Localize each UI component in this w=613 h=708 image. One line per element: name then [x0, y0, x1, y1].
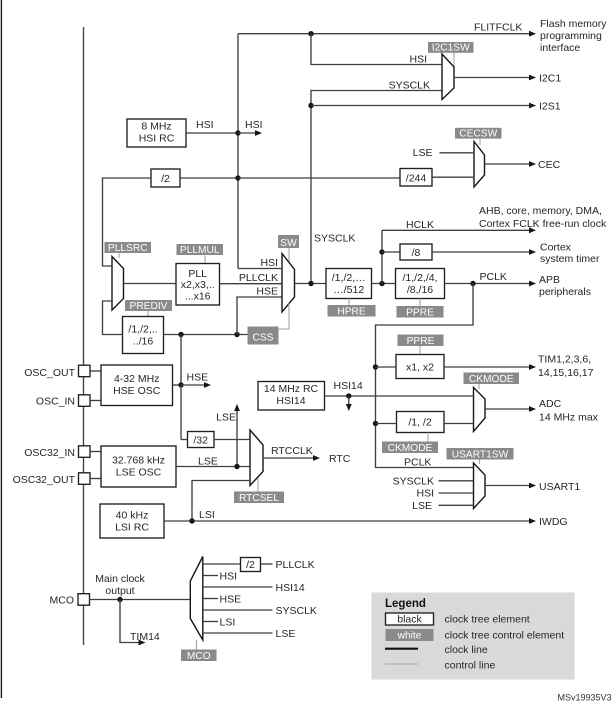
svg-text:white: white — [397, 630, 422, 641]
svg-text:CECSW: CECSW — [459, 128, 497, 139]
box PLL x2,x3 ... x16 — [176, 264, 220, 306]
svg-text:/1,/2,…: /1,/2,… — [332, 272, 366, 284]
svg-text:PPRE: PPRE — [407, 336, 435, 347]
svg-text:RTC: RTC — [329, 453, 351, 465]
node SW-HSE junction — [234, 332, 239, 337]
svg-text:PCLK: PCLK — [480, 271, 507, 283]
control stub PREDIV to box — [147, 311, 149, 316]
svg-text:Legend: Legend — [385, 598, 426, 610]
svg-text:LSI: LSI — [199, 509, 215, 521]
wire MCO HSI14 input — [203, 586, 273, 588]
svg-text:MSv19935V3: MSv19935V3 — [557, 693, 611, 703]
node PREDIV-HSE junction — [178, 332, 183, 337]
wire SYSCLK trunk vertical x=311 — [311, 91, 442, 284]
control stub CECSW to mux — [479, 139, 481, 145]
svg-text:HSE: HSE — [187, 372, 209, 384]
control wire CSS to SW mux — [279, 304, 290, 330]
multiplier box x1, x2 — [396, 355, 444, 379]
wire SW mux output SYSCLK — [295, 283, 327, 285]
legend white element sample — [386, 629, 434, 641]
svg-text:CKMODE: CKMODE — [388, 443, 433, 454]
control stub I2C1SW to mux — [453, 53, 455, 66]
svg-text:HSE: HSE — [220, 594, 242, 606]
svg-text:Flash memory: Flash memory — [540, 18, 607, 30]
svg-text:LSE: LSE — [413, 147, 433, 159]
svg-text:14 MHz max: 14 MHz max — [539, 412, 599, 424]
svg-text:PLLCLK: PLLCLK — [239, 272, 278, 284]
svg-text:OSC32_IN: OSC32_IN — [24, 447, 75, 459]
wire /8 to Cortex system timer — [432, 251, 532, 253]
wire HSI to /2 divider — [180, 177, 238, 179]
node SYSCLK junction — [308, 281, 313, 286]
svg-text:HPRE: HPRE — [337, 306, 366, 317]
legend black element sample — [386, 613, 434, 625]
svg-text:14 MHz RC: 14 MHz RC — [264, 383, 319, 395]
control stub SW to mux — [288, 248, 290, 263]
wire HCLK to /8 — [382, 251, 400, 253]
node HSI RC junction — [235, 130, 240, 135]
svg-text:PLLMUL: PLLMUL — [180, 245, 220, 256]
node HSE junction — [178, 382, 183, 387]
svg-text:AHB, core, memory, DMA,: AHB, core, memory, DMA, — [479, 205, 602, 217]
pin MCO — [78, 594, 90, 606]
svg-text:HSI: HSI — [245, 119, 263, 131]
wire LSE stub usart — [439, 504, 474, 506]
svg-text:Cortex: Cortex — [540, 242, 572, 254]
page left border — [0, 0, 2, 698]
wire PCLK to /1,/2 — [376, 423, 397, 425]
wire PCLK descent to peripherals — [376, 284, 475, 468]
control stub HPRE — [348, 299, 350, 306]
wire HSI trunk into SW mux — [238, 268, 282, 270]
oscillator box 32.768 kHz LSE OSC — [101, 446, 176, 487]
svg-text:Cortex FCLK free-run clock: Cortex FCLK free-run clock — [479, 218, 607, 230]
wire HSE direction arrow — [181, 384, 207, 386]
svg-text:HSI: HSI — [220, 571, 238, 583]
divider box /2 — [151, 169, 180, 187]
control stub RTCSEL — [257, 478, 259, 492]
wire USART1 output — [485, 485, 532, 487]
oscillator box 14 MHz RC HSI14 — [258, 382, 325, 411]
wire MCO LSI input stub — [203, 621, 218, 623]
control label PLLSRC — [105, 242, 152, 253]
svg-text:I2S1: I2S1 — [539, 101, 561, 113]
svg-text:/1, /2: /1, /2 — [408, 417, 432, 429]
svg-text:black: black — [397, 613, 422, 625]
svg-text:../16: ../16 — [133, 335, 154, 347]
wire /1,/2 to ADC mux — [444, 423, 474, 425]
svg-text:/244: /244 — [406, 172, 427, 184]
svg-text:32.768 kHz: 32.768 kHz — [112, 454, 165, 466]
svg-text:CKMODE: CKMODE — [469, 374, 514, 385]
svg-text:TIM14: TIM14 — [130, 631, 160, 643]
svg-text:/8: /8 — [412, 247, 421, 259]
mux PLLSRC — [112, 257, 124, 311]
wire HCLK to AHB arrow — [382, 229, 532, 231]
node HSI/FLITFCLK junction — [308, 31, 313, 36]
wire HSI14 direction arrow down — [348, 396, 350, 405]
svg-text:USART1: USART1 — [539, 481, 580, 493]
control label PLLMUL — [177, 244, 224, 255]
wire PREDIV output loop to PLLSRC mux — [103, 301, 123, 335]
svg-text:programming: programming — [540, 30, 602, 42]
svg-text:PREDIV: PREDIV — [130, 301, 168, 312]
svg-text:/2: /2 — [161, 173, 170, 185]
wire OSC32_OUT stub — [90, 478, 101, 480]
control stub PPRE timers — [419, 346, 421, 355]
wire OSC_IN to HSE OSC — [90, 400, 101, 402]
svg-text:SYSCLK: SYSCLK — [393, 475, 434, 487]
wire MCO LSE input — [203, 632, 273, 634]
control label I2C1SW — [428, 42, 474, 53]
divider box /244 — [400, 169, 432, 187]
wire PLLSRC output to PLL — [124, 283, 177, 285]
pin OSC32_IN — [79, 446, 91, 458]
divider box /1, /2 adc — [397, 412, 445, 433]
svg-text:HSI: HSI — [196, 119, 214, 131]
wire MCO HSI input stub — [203, 575, 218, 577]
wire HSI RC output — [186, 132, 238, 134]
svg-text:clock tree control element: clock tree control element — [445, 629, 565, 641]
svg-text:CSS: CSS — [253, 333, 274, 344]
node adc div junction — [373, 421, 378, 426]
svg-text:HSI14: HSI14 — [276, 582, 305, 594]
svg-text:Main clock: Main clock — [95, 573, 145, 585]
wire /2 output to PLLSRC mux — [103, 178, 152, 266]
svg-text:control line: control line — [445, 660, 496, 672]
node HSI //2 //244 junction — [235, 175, 240, 180]
svg-text:CEC: CEC — [538, 159, 561, 171]
svg-text:/1,/2,/4,: /1,/2,/4, — [402, 272, 437, 284]
control label CKMODE adc — [464, 373, 520, 385]
node x1x2 junction — [373, 364, 378, 369]
mux RTCSEL — [250, 430, 263, 486]
svg-text:OSC32_OUT: OSC32_OUT — [13, 474, 76, 486]
legend control line sample — [385, 663, 418, 665]
wire MCO output — [90, 599, 191, 601]
control stub USART1SW — [479, 460, 481, 465]
svg-text:4-32 MHz: 4-32 MHz — [114, 373, 160, 385]
svg-text:/8,/16: /8,/16 — [407, 284, 433, 296]
control label PPRE — [397, 306, 444, 318]
wire LSE to CEC mux — [440, 152, 475, 154]
wire HSI to /244 divider — [238, 177, 400, 179]
control stub CKMODE lower — [427, 433, 429, 442]
svg-text:/2: /2 — [246, 559, 255, 571]
wire SYSCLK stub usart — [439, 480, 474, 482]
svg-text:LSE: LSE — [198, 456, 218, 468]
svg-text:40 kHz: 40 kHz — [116, 509, 149, 521]
svg-text:SYSCLK: SYSCLK — [389, 79, 430, 91]
svg-text:clock tree element: clock tree element — [445, 613, 530, 625]
svg-text:LSI: LSI — [220, 617, 236, 629]
wire HSI trunk vertical x=238 — [237, 34, 239, 269]
divider box PREDIV /1,/2.. ../16 — [123, 317, 164, 354]
divider box /32 — [188, 432, 215, 448]
svg-text:PLLCLK: PLLCLK — [276, 559, 315, 571]
svg-text:SW: SW — [280, 238, 297, 249]
wire HSI14 to ADC mux — [325, 395, 474, 397]
svg-text:MCO: MCO — [187, 651, 211, 662]
svg-text:RTCSEL: RTCSEL — [239, 493, 279, 504]
svg-text:IWDG: IWDG — [539, 516, 568, 528]
mux SW system clock switch — [282, 254, 295, 313]
control stub MCO label — [196, 640, 198, 650]
svg-text:x1, x2: x1, x2 — [406, 362, 434, 374]
oscillator box 4-32 MHz HSE OSC — [101, 365, 173, 406]
wire CEC output — [485, 163, 533, 165]
svg-text:MCO: MCO — [50, 594, 75, 606]
oscillator box 8 MHz HSI RC — [127, 119, 186, 147]
svg-text:/32: /32 — [193, 435, 208, 447]
wire PCLK to x1,x2 — [376, 366, 397, 368]
svg-text:…/512: …/512 — [333, 284, 364, 296]
legend panel — [372, 593, 575, 680]
svg-text:8 MHz: 8 MHz — [141, 121, 171, 133]
svg-text:HCLK: HCLK — [406, 219, 434, 231]
wire MCO SYSCLK input — [203, 609, 273, 611]
svg-text:SYSCLK: SYSCLK — [276, 605, 317, 617]
svg-text:I2C1: I2C1 — [539, 73, 561, 85]
svg-text:TIM1,2,3,6,: TIM1,2,3,6, — [538, 354, 591, 366]
svg-text:14,15,16,17: 14,15,16,17 — [538, 367, 594, 379]
wire HSE OSC output — [173, 384, 182, 386]
svg-text:PPRE: PPRE — [406, 307, 434, 318]
svg-text:SYSCLK: SYSCLK — [314, 233, 355, 245]
wire /2 to PLLCLK label — [261, 563, 273, 565]
svg-text:/1,/2,..: /1,/2,.. — [128, 323, 157, 335]
divider box /2 mco — [241, 558, 261, 572]
svg-text:system timer: system timer — [540, 253, 600, 265]
svg-text:HSE: HSE — [256, 286, 278, 298]
divider box /8 — [400, 244, 432, 260]
wire x1,x2 to TIM arrow — [444, 366, 532, 368]
svg-text:ADC: ADC — [539, 398, 562, 410]
wire MCO HSE input stub — [203, 598, 218, 600]
control box CSS — [248, 327, 279, 345]
svg-text:APB: APB — [539, 274, 560, 286]
svg-text:LSE: LSE — [216, 412, 236, 424]
wire LSI to IWDG — [164, 520, 532, 522]
wire PLLCLK to SW mux — [220, 283, 283, 285]
node LSI junction — [189, 518, 194, 523]
node PCLK junction — [470, 281, 475, 286]
svg-text:LSI RC: LSI RC — [115, 521, 149, 533]
mux I2C1SW — [442, 54, 454, 100]
svg-text:USART1SW: USART1SW — [452, 449, 509, 460]
wire HCLK vertical — [381, 230, 383, 283]
node /8 branch junction — [379, 249, 384, 254]
svg-text:LSE: LSE — [412, 500, 432, 512]
node HCLK junction — [379, 281, 384, 286]
wire LSI to RTCSEL mux — [192, 481, 250, 522]
wire MCO PLLCLK input — [203, 563, 241, 565]
svg-text:output: output — [105, 585, 134, 597]
wire OSC_OUT to HSE OSC — [90, 370, 101, 372]
control label HPRE — [328, 305, 376, 317]
chip boundary bus line — [83, 27, 85, 645]
svg-text:I2C1SW: I2C1SW — [432, 43, 470, 54]
svg-text:FLITFCLK: FLITFCLK — [474, 22, 522, 34]
svg-text:HSI14: HSI14 — [276, 395, 305, 407]
control label CKMODE lower — [382, 442, 438, 454]
svg-text:x2,x3,..: x2,x3,.. — [181, 279, 215, 291]
svg-text:interface: interface — [540, 42, 580, 54]
wire HSE trunk up to SW mux — [237, 297, 282, 335]
wire HSI branch down to I2C1SW mux — [311, 34, 442, 65]
wire ADC mux output — [485, 408, 532, 410]
control stub PPRE — [419, 299, 421, 307]
divider box PPRE /1,/2,/4,/8,/16 — [396, 269, 445, 299]
wire HSE to PREDIV and CSS — [164, 334, 248, 336]
pin OSC32_OUT — [79, 473, 91, 485]
svg-text:PCLK: PCLK — [404, 457, 431, 469]
oscillator box 40 kHz LSI RC — [100, 504, 164, 538]
svg-text:LSE OSC: LSE OSC — [116, 466, 162, 478]
control label CECSW — [455, 128, 502, 139]
node HSI14 junction — [346, 393, 351, 398]
pin OSC_OUT — [79, 365, 91, 377]
control label SW — [278, 235, 299, 248]
wire OSC32_IN stub — [90, 451, 101, 453]
wire /244 output to CEC mux — [432, 176, 474, 178]
wire FLITFCLK horizontal HSI to flash arrow — [238, 33, 532, 35]
svg-text:clock line: clock line — [445, 644, 488, 656]
wire LSE direction arrow up — [236, 410, 238, 467]
mux MCO mirrored — [190, 557, 203, 641]
wire LSE OSC output to RTCSEL mux — [176, 466, 250, 468]
svg-text:LSE: LSE — [276, 628, 296, 640]
mux USART1 — [474, 463, 486, 509]
wire RTCCLK output — [263, 457, 316, 459]
wire HSE trunk down to HSE OSC — [180, 335, 182, 386]
control stub CKMODE adc — [478, 384, 480, 389]
wire I2S1 line — [311, 105, 532, 107]
svg-text:HSE OSC: HSE OSC — [113, 385, 161, 397]
wire /32 to RTCSEL mux — [214, 439, 250, 441]
svg-text:PLLSRC: PLLSRC — [108, 243, 148, 254]
divider box HPRE /1,/2 ... /512 — [326, 269, 372, 299]
wire HSE to /32 — [181, 439, 188, 441]
wire HSI stub usart — [439, 492, 474, 494]
control label PPRE timers — [398, 335, 444, 347]
svg-text:HSI: HSI — [416, 488, 434, 500]
control stub PLLMUL to PLL box — [204, 255, 206, 263]
svg-text:OSC_IN: OSC_IN — [36, 396, 75, 408]
wire HPRE output to PPRE — [372, 283, 396, 285]
control label PREDIV — [125, 300, 172, 311]
svg-text:peripherals: peripherals — [539, 286, 591, 298]
svg-text:HSI: HSI — [409, 53, 427, 65]
svg-text:RTCCLK: RTCCLK — [271, 445, 313, 457]
node MCO junction — [117, 597, 122, 602]
svg-text:OSC_OUT: OSC_OUT — [24, 367, 75, 379]
svg-text:HSI: HSI — [260, 257, 278, 269]
wire HSE down to /32 — [180, 385, 182, 440]
wire HSI direction arrow — [238, 132, 258, 134]
mux CECSW — [474, 142, 485, 188]
svg-text:HSI14: HSI14 — [334, 380, 363, 392]
svg-text:HSI RC: HSI RC — [139, 133, 175, 145]
svg-text:...x16: ...x16 — [185, 290, 211, 302]
wire PCLK to APB arrow — [445, 283, 533, 285]
wire I2C1 output — [454, 77, 532, 79]
control label MCO — [181, 650, 217, 662]
legend clock line sample — [385, 648, 418, 650]
pin OSC_IN — [79, 395, 91, 407]
wire TIM14 branch — [120, 600, 141, 643]
svg-text:PLL: PLL — [188, 268, 207, 280]
control label RTCSEL — [234, 492, 284, 504]
mux ADC clock — [474, 388, 486, 432]
node I2S1 branch junction — [308, 103, 313, 108]
node LSE junction — [234, 464, 239, 469]
control label USART1SW — [447, 448, 514, 460]
control stub PLLSRC to mux — [118, 253, 120, 258]
